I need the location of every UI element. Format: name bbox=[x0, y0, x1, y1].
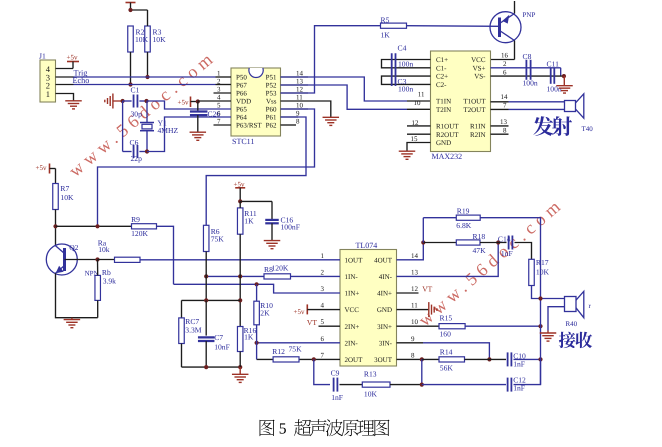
junction bbox=[144, 99, 148, 103]
svg-text:VCC: VCC bbox=[471, 56, 486, 64]
wire R2OUT stub bbox=[407, 133, 431, 135]
svg-text:P67: P67 bbox=[236, 82, 247, 90]
svg-text:T1OUT: T1OUT bbox=[463, 98, 486, 106]
resistor R12 75K bbox=[273, 357, 299, 362]
resistor Rb 3.9k bbox=[95, 275, 101, 300]
svg-text:P50: P50 bbox=[236, 74, 247, 82]
resistor R15 160 bbox=[439, 324, 465, 329]
wire 2OUT feedback bbox=[314, 359, 330, 384]
svg-text:2K: 2K bbox=[260, 309, 270, 318]
svg-text:1nF: 1nF bbox=[501, 249, 513, 258]
resistor R11 1K bbox=[237, 208, 243, 234]
svg-text:4OUT: 4OUT bbox=[374, 256, 393, 264]
svg-text:3OUT: 3OUT bbox=[374, 356, 393, 364]
wire bbox=[423, 242, 456, 244]
wire bbox=[421, 359, 423, 384]
svg-text:100n: 100n bbox=[523, 79, 538, 88]
svg-text:C1: C1 bbox=[131, 86, 140, 95]
wire bbox=[147, 117, 231, 152]
junction bbox=[145, 75, 149, 79]
wire bbox=[205, 252, 207, 301]
IC STC11 bbox=[231, 68, 281, 136]
wire bbox=[532, 286, 565, 299]
wire bbox=[465, 325, 540, 327]
svg-text:10: 10 bbox=[414, 99, 422, 107]
resistor R2 10K bbox=[128, 26, 134, 52]
wire Trig net bbox=[74, 76, 216, 78]
wire bbox=[97, 260, 99, 276]
junction bbox=[255, 341, 259, 345]
wire bbox=[256, 284, 258, 301]
svg-text:C6: C6 bbox=[130, 138, 139, 147]
label 发射 bbox=[533, 116, 572, 136]
svg-text:Vss: Vss bbox=[266, 98, 277, 106]
wire bbox=[407, 108, 431, 110]
wire collector to VCC bbox=[514, 41, 516, 60]
wire pin14 stub bbox=[281, 76, 309, 78]
svg-text:P63/RST: P63/RST bbox=[236, 122, 262, 130]
svg-text:C8: C8 bbox=[523, 52, 532, 61]
svg-text:VCC: VCC bbox=[345, 306, 360, 314]
wire P51 to T1IN bbox=[281, 77, 408, 101]
speaker T40 (transmit) bbox=[565, 101, 576, 112]
svg-text:16: 16 bbox=[501, 52, 509, 60]
wire 2IN+ stub bbox=[319, 325, 341, 327]
svg-text:14: 14 bbox=[296, 70, 304, 78]
svg-text:+5v: +5v bbox=[178, 99, 189, 107]
svg-text:7: 7 bbox=[503, 101, 507, 109]
svg-text:1K: 1K bbox=[244, 217, 254, 226]
svg-text:14: 14 bbox=[411, 252, 419, 260]
svg-text:P51: P51 bbox=[266, 74, 277, 82]
svg-text:VS-: VS- bbox=[474, 73, 486, 81]
wire bbox=[514, 358, 541, 360]
svg-text:3IN-: 3IN- bbox=[379, 339, 393, 347]
svg-text:2IN+: 2IN+ bbox=[345, 323, 360, 331]
svg-text:VS+: VS+ bbox=[473, 64, 486, 72]
svg-text:9: 9 bbox=[296, 110, 300, 118]
wire P61 net bbox=[206, 117, 306, 225]
junction bbox=[538, 357, 542, 361]
svg-text:P61: P61 bbox=[266, 114, 277, 122]
ground (J1 pin1) bbox=[65, 100, 82, 102]
svg-text:22p: 22p bbox=[131, 154, 143, 163]
junction bbox=[95, 257, 99, 261]
junction bbox=[487, 357, 491, 361]
svg-text:1K: 1K bbox=[381, 31, 391, 40]
svg-text:4IN+: 4IN+ bbox=[377, 290, 392, 298]
svg-text:5: 5 bbox=[321, 318, 325, 326]
svg-text:P66: P66 bbox=[236, 90, 247, 98]
wire GND bbox=[407, 143, 431, 151]
svg-text:4IN-: 4IN- bbox=[379, 273, 393, 281]
wire bbox=[56, 225, 132, 227]
svg-text:56K: 56K bbox=[440, 364, 454, 373]
junction bbox=[420, 357, 424, 361]
svg-text:1nF: 1nF bbox=[331, 393, 343, 402]
svg-text:10K: 10K bbox=[60, 193, 74, 202]
svg-text:R5: R5 bbox=[381, 16, 390, 25]
svg-text:C26: C26 bbox=[208, 110, 221, 119]
junction bbox=[255, 282, 259, 286]
svg-text:47K: 47K bbox=[473, 246, 487, 255]
wire R19 branch bbox=[422, 218, 424, 243]
wire bbox=[390, 384, 422, 386]
svg-text:6.8K: 6.8K bbox=[456, 221, 471, 230]
wire bbox=[56, 94, 74, 101]
svg-text:R14: R14 bbox=[440, 348, 453, 357]
svg-text:Q2: Q2 bbox=[69, 243, 78, 252]
junction bbox=[53, 224, 57, 228]
wire 2OUT net bbox=[257, 358, 274, 360]
resistor R7 10K bbox=[53, 184, 59, 210]
svg-text:2OUT: 2OUT bbox=[345, 356, 364, 364]
junction bbox=[204, 298, 208, 302]
ground (Q2 emitter) bbox=[71, 318, 73, 320]
svg-text:1K: 1K bbox=[244, 333, 254, 342]
svg-text:3.3M: 3.3M bbox=[185, 326, 201, 335]
junction bbox=[238, 274, 242, 278]
wire bbox=[55, 169, 57, 184]
svg-text:R2IN: R2IN bbox=[470, 131, 486, 139]
svg-text:120K: 120K bbox=[131, 229, 148, 238]
IC MAX232 bbox=[431, 51, 491, 152]
wire VS- line bbox=[491, 75, 564, 77]
label 接收 bbox=[559, 332, 592, 348]
resistor R16 1K bbox=[237, 327, 243, 352]
wire GND stub bbox=[397, 309, 429, 311]
junction bbox=[204, 274, 208, 278]
svg-text:11: 11 bbox=[411, 302, 418, 310]
capacitor C6 22p bbox=[123, 151, 132, 153]
wire R1OUT stub bbox=[407, 125, 431, 127]
capacitor C8 100n bbox=[525, 60, 527, 80]
resistor R9 120K bbox=[132, 224, 157, 229]
svg-text:R13: R13 bbox=[364, 370, 377, 379]
junction bbox=[196, 99, 200, 103]
ground (R16) bbox=[239, 367, 241, 374]
svg-text:P62: P62 bbox=[266, 122, 277, 130]
svg-text:6: 6 bbox=[503, 68, 507, 76]
wire 4IN- net bbox=[397, 243, 499, 277]
wire VS+ line bbox=[491, 67, 561, 69]
resistor R14 56K bbox=[439, 357, 465, 362]
svg-text:7: 7 bbox=[217, 118, 221, 126]
wire pin13 stub bbox=[281, 84, 309, 86]
wire 3IN+ net bbox=[397, 325, 440, 327]
svg-text:R17: R17 bbox=[536, 258, 549, 267]
svg-text:T40: T40 bbox=[582, 125, 594, 133]
svg-text:P60: P60 bbox=[266, 106, 277, 114]
junction bbox=[128, 8, 132, 12]
wire bbox=[181, 344, 183, 368]
svg-text:4: 4 bbox=[217, 94, 221, 102]
svg-text:VT: VT bbox=[307, 318, 317, 327]
svg-text:C9: C9 bbox=[331, 369, 340, 378]
svg-text:GND: GND bbox=[436, 139, 451, 147]
capacitor C4 100n bbox=[391, 53, 393, 70]
wire bbox=[239, 352, 241, 368]
resistor RC7 3.3M bbox=[181, 300, 183, 318]
wire RC7 top line bbox=[182, 299, 241, 301]
capacitor C12 1nF bbox=[507, 378, 509, 392]
ground (MAX232 GND) bbox=[399, 150, 416, 152]
IC TL074 bbox=[340, 250, 397, 367]
wire bbox=[147, 10, 149, 26]
svg-text:R19: R19 bbox=[457, 207, 470, 216]
capacitor C11 100n bbox=[550, 68, 552, 84]
ground (R40) bbox=[547, 331, 549, 333]
wire bbox=[55, 210, 57, 246]
svg-text:1: 1 bbox=[217, 70, 221, 78]
wire left rail bbox=[122, 101, 124, 152]
junction bbox=[420, 383, 424, 387]
svg-text:1: 1 bbox=[46, 89, 50, 99]
junction bbox=[95, 224, 99, 228]
svg-text:10: 10 bbox=[296, 102, 304, 110]
capacitor C1 20p bbox=[123, 100, 132, 102]
speaker R40 (receive) bbox=[565, 297, 577, 312]
resistor R6 75K bbox=[203, 225, 209, 251]
wire 3IN- net bbox=[397, 342, 424, 344]
svg-text:P52: P52 bbox=[266, 82, 277, 90]
svg-text:8: 8 bbox=[411, 351, 415, 359]
junction bbox=[204, 365, 208, 369]
junction bbox=[238, 298, 242, 302]
wire pin10 stub bbox=[281, 108, 309, 110]
svg-text:4: 4 bbox=[321, 302, 325, 310]
svg-text:100nF: 100nF bbox=[281, 223, 300, 232]
junction bbox=[238, 199, 242, 203]
svg-text:R12: R12 bbox=[272, 347, 285, 356]
svg-text:100n: 100n bbox=[398, 85, 413, 94]
power +5v (top of R2 R3) bbox=[126, 2, 136, 4]
svg-text:P53: P53 bbox=[266, 90, 277, 98]
junction bbox=[128, 82, 132, 86]
junction bbox=[538, 324, 542, 328]
junction bbox=[496, 240, 500, 244]
capacitor C14 1nF bbox=[508, 236, 510, 250]
svg-text:1OUT: 1OUT bbox=[345, 256, 364, 264]
svg-text:J1: J1 bbox=[39, 52, 46, 61]
resistor R5 1K bbox=[381, 23, 407, 28]
svg-text:C2-: C2- bbox=[436, 81, 447, 89]
svg-text:14: 14 bbox=[501, 93, 509, 101]
wire bbox=[480, 242, 507, 244]
svg-text:+5v: +5v bbox=[36, 164, 47, 172]
svg-text:R2OUT: R2OUT bbox=[436, 131, 459, 139]
wire pin12 stub bbox=[281, 92, 309, 94]
wire 1OUT net (to Ra) bbox=[140, 259, 340, 261]
transistor Q1 PNP bbox=[490, 12, 521, 43]
wire bottom line bbox=[182, 366, 241, 368]
wire 2IN- net bbox=[257, 342, 340, 344]
capacitor C3 100n bbox=[391, 69, 393, 86]
svg-text:10nF: 10nF bbox=[214, 343, 230, 352]
wire C2+ C2- bracket bbox=[382, 76, 431, 84]
junction bbox=[145, 149, 149, 153]
svg-text:120K: 120K bbox=[272, 264, 289, 273]
svg-text:30p: 30p bbox=[131, 110, 143, 119]
ground (C26) bbox=[190, 131, 207, 133]
resistor Ra 10k bbox=[98, 259, 115, 261]
svg-text:160: 160 bbox=[440, 330, 452, 339]
svg-text:R15: R15 bbox=[440, 314, 453, 323]
svg-text:1IN-: 1IN- bbox=[345, 273, 359, 281]
svg-text:10K: 10K bbox=[536, 267, 550, 276]
svg-text:8: 8 bbox=[296, 118, 300, 126]
wire VDD bbox=[198, 100, 231, 102]
wire pin3 stub bbox=[214, 92, 232, 94]
svg-text:C11: C11 bbox=[547, 60, 560, 69]
junction bbox=[312, 357, 316, 361]
svg-text:15: 15 bbox=[411, 135, 419, 143]
svg-text:12: 12 bbox=[296, 86, 304, 94]
wire emitter up bbox=[514, 1, 516, 14]
wire rail bbox=[480, 218, 540, 385]
wire 3OUT net bbox=[397, 358, 422, 360]
resistor R17 10K bbox=[529, 259, 535, 285]
wire bbox=[147, 52, 149, 77]
svg-text:1IN+: 1IN+ bbox=[345, 290, 360, 298]
svg-text:2: 2 bbox=[321, 268, 325, 276]
svg-text:75K: 75K bbox=[289, 345, 303, 354]
transistor Q2 NPN bbox=[46, 244, 77, 275]
svg-text:C1-: C1- bbox=[436, 64, 447, 72]
wire bbox=[548, 307, 565, 331]
wire bbox=[340, 384, 363, 386]
svg-text:MAX232: MAX232 bbox=[432, 152, 463, 161]
junction bbox=[538, 296, 542, 300]
svg-text:5: 5 bbox=[279, 421, 287, 438]
svg-text:R40: R40 bbox=[566, 320, 578, 328]
svg-text:3: 3 bbox=[217, 86, 221, 94]
svg-text:GND: GND bbox=[377, 306, 392, 314]
wire P60 net bbox=[98, 109, 315, 226]
wire bbox=[256, 325, 258, 360]
svg-text:R1IN: R1IN bbox=[470, 123, 486, 131]
wire T2OUT bbox=[491, 108, 509, 110]
wire bbox=[56, 84, 74, 86]
wire R2IN stub bbox=[491, 133, 509, 135]
wire bbox=[465, 358, 507, 360]
svg-text:T2IN: T2IN bbox=[436, 106, 451, 114]
svg-text:10K: 10K bbox=[135, 35, 149, 44]
wire P52 to T2IN bbox=[281, 85, 408, 109]
svg-text:STC11: STC11 bbox=[232, 137, 254, 146]
wire bbox=[56, 68, 74, 70]
svg-text:100n: 100n bbox=[398, 60, 413, 69]
wire pin2 stub bbox=[216, 84, 232, 86]
wire bbox=[514, 359, 541, 384]
svg-text:2: 2 bbox=[503, 60, 507, 68]
wire Vss bbox=[281, 101, 331, 117]
wire bbox=[239, 234, 241, 326]
wire bbox=[407, 100, 431, 102]
svg-text:C2+: C2+ bbox=[436, 73, 448, 81]
junction bbox=[421, 240, 425, 244]
wire C1+ C1- bracket bbox=[382, 60, 431, 68]
capacitor C16 100nF bbox=[240, 200, 272, 202]
wire Echo net bbox=[74, 84, 216, 86]
svg-text:7: 7 bbox=[321, 351, 325, 359]
svg-text:3: 3 bbox=[321, 285, 325, 293]
wire R1IN stub bbox=[491, 125, 509, 127]
wire 1IN+ net bbox=[174, 284, 341, 293]
wire pin7 stub bbox=[214, 124, 232, 126]
svg-text:9: 9 bbox=[411, 335, 415, 343]
svg-text:11: 11 bbox=[296, 94, 303, 102]
svg-text:1nF: 1nF bbox=[513, 360, 525, 369]
wire bbox=[56, 76, 74, 78]
ground (C16) bbox=[264, 240, 281, 242]
svg-text:VDD: VDD bbox=[236, 98, 251, 106]
wire pin8 stub bbox=[281, 124, 297, 126]
svg-text:10: 10 bbox=[411, 318, 419, 326]
svg-text:C14: C14 bbox=[498, 235, 511, 244]
svg-text:12: 12 bbox=[411, 285, 419, 293]
junction bbox=[562, 74, 566, 78]
wire bbox=[147, 101, 232, 109]
svg-text:5: 5 bbox=[217, 102, 221, 110]
svg-text:3IN+: 3IN+ bbox=[377, 323, 392, 331]
svg-text:R1OUT: R1OUT bbox=[436, 123, 459, 131]
wire bbox=[515, 243, 532, 260]
capacitor C9 1nF bbox=[333, 378, 335, 392]
svg-text:PNP: PNP bbox=[523, 11, 536, 19]
resistor R13 10K bbox=[362, 382, 390, 387]
svg-text:+5v: +5v bbox=[67, 54, 78, 62]
svg-text:8: 8 bbox=[503, 126, 507, 134]
svg-text:13: 13 bbox=[500, 118, 508, 126]
svg-text:2IN-: 2IN- bbox=[345, 339, 359, 347]
capacitor C26 bbox=[197, 102, 199, 112]
ground (TL074 GND, sideways) bbox=[428, 302, 430, 317]
svg-text:3.9k: 3.9k bbox=[103, 276, 116, 285]
wire bbox=[157, 226, 174, 284]
svg-text:75K: 75K bbox=[211, 235, 225, 244]
svg-text:+5v: +5v bbox=[294, 308, 305, 316]
resistor R18 47K bbox=[456, 240, 480, 245]
svg-text:11: 11 bbox=[418, 91, 425, 99]
svg-text:R18: R18 bbox=[473, 232, 486, 241]
svg-text:T1IN: T1IN bbox=[436, 98, 451, 106]
resistor R19 6.8K bbox=[456, 215, 480, 220]
wire base bbox=[65, 259, 98, 261]
svg-text:P64: P64 bbox=[236, 114, 247, 122]
svg-text:10k: 10k bbox=[98, 245, 110, 254]
svg-text:10K: 10K bbox=[153, 35, 167, 44]
capacitor C10 1nF bbox=[507, 352, 509, 366]
svg-text:13: 13 bbox=[296, 78, 304, 86]
wire 4OUT net bbox=[397, 243, 424, 260]
wire bbox=[422, 384, 506, 386]
wire T1OUT bbox=[491, 101, 509, 103]
caption 图5超声波原理图 bbox=[260, 419, 390, 437]
svg-text:6: 6 bbox=[321, 335, 325, 343]
svg-text:C7: C7 bbox=[214, 333, 223, 342]
junction bbox=[121, 99, 125, 103]
svg-text:10K: 10K bbox=[364, 390, 378, 399]
wire bbox=[130, 52, 132, 85]
wire P53 to R5 bbox=[281, 26, 381, 93]
svg-text:C1+: C1+ bbox=[436, 56, 448, 64]
wire bbox=[407, 25, 500, 28]
wire bbox=[97, 300, 99, 317]
svg-text:VT: VT bbox=[422, 285, 432, 294]
resistor R10 2K bbox=[254, 301, 260, 325]
crystal Y1 4MHZ bbox=[146, 101, 148, 123]
